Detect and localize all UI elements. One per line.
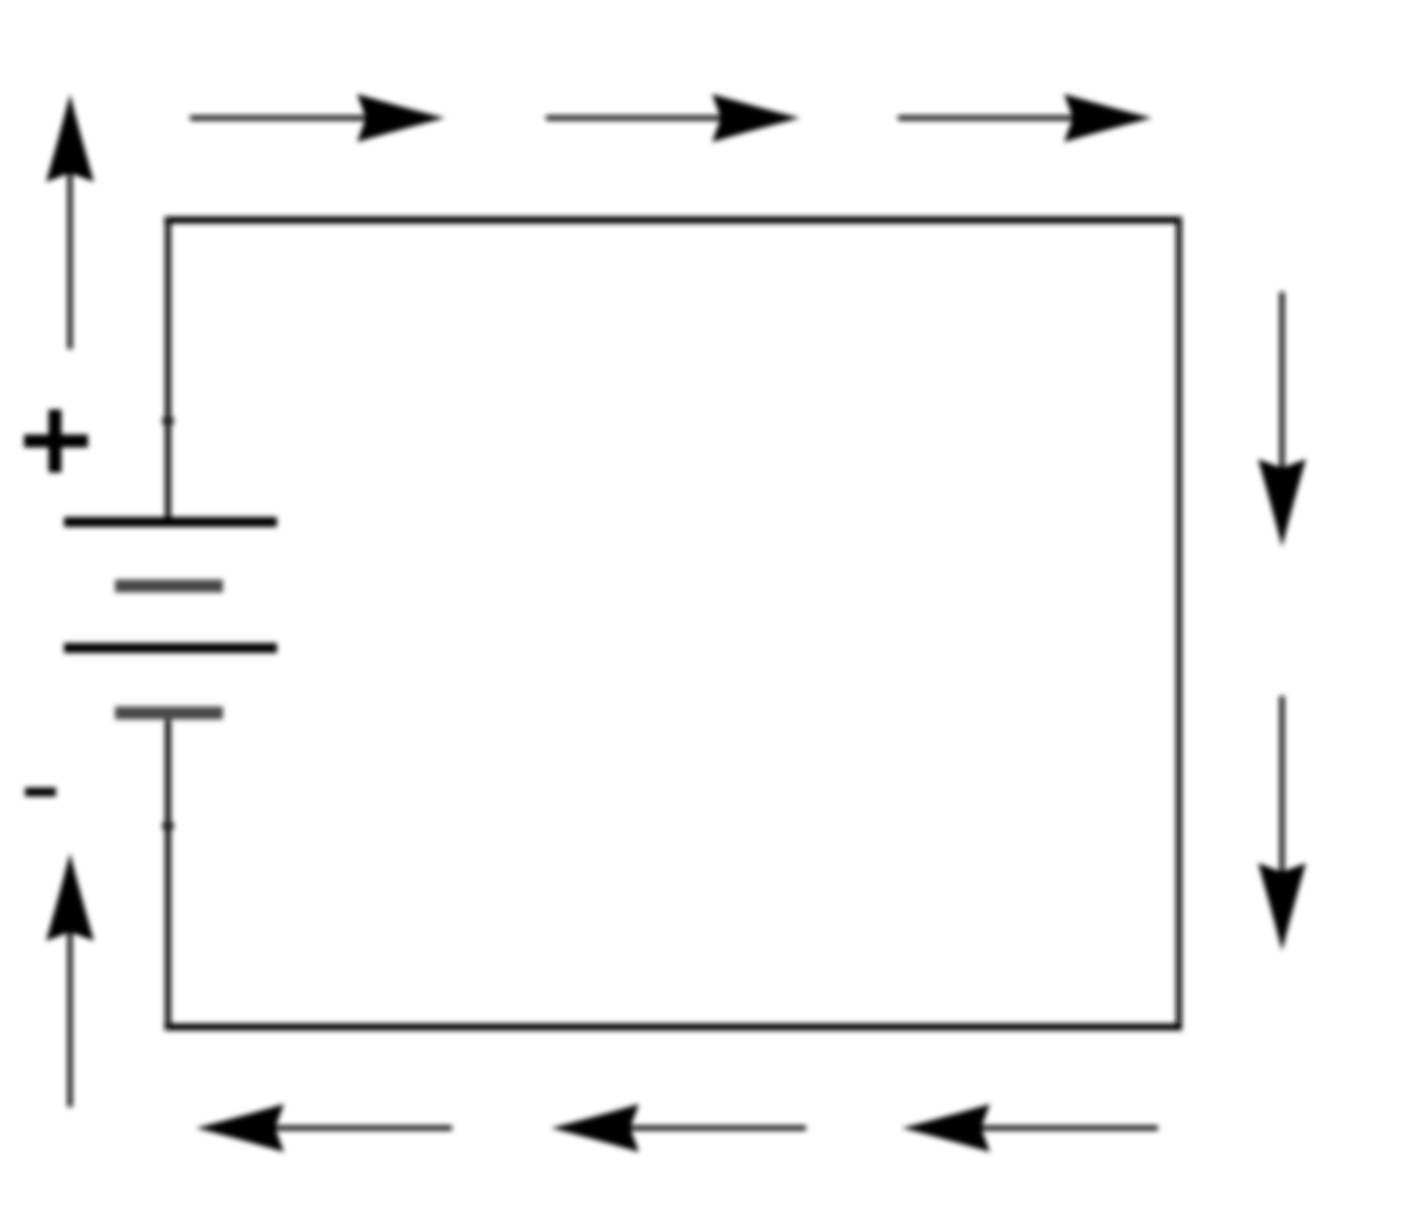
current arrow bottom 2 (leftward) bbox=[551, 1104, 806, 1152]
junction node on lower left wire bbox=[162, 820, 174, 832]
current arrow top 2 (rightward) bbox=[546, 94, 800, 142]
battery B1 long plate (cell 1, positive) bbox=[64, 517, 277, 527]
wire bottom side of loop bbox=[165, 1024, 1183, 1031]
current arrow left upper (upward) bbox=[46, 94, 94, 349]
current arrow bottom 1 (leftward) bbox=[196, 1104, 452, 1152]
battery B1 short plate (cell 1, negative) bbox=[115, 580, 223, 593]
polarity label + (positive terminal) bbox=[24, 410, 88, 473]
battery B1 short plate (cell 2, negative) bbox=[115, 707, 223, 720]
current arrow right 2 (downward) bbox=[1258, 696, 1306, 951]
current arrow top 3 (rightward) bbox=[898, 94, 1152, 142]
current arrow bottom 3 (leftward) bbox=[902, 1104, 1158, 1152]
junction node on upper left wire bbox=[162, 415, 174, 427]
current arrow left lower (upward) bbox=[46, 853, 94, 1107]
polarity label - (negative terminal) bbox=[25, 788, 56, 797]
wire right side of loop bbox=[1176, 217, 1182, 1031]
current arrow right 1 (downward) bbox=[1258, 292, 1306, 547]
battery B1 long plate (cell 2, positive) bbox=[64, 643, 277, 653]
wire left side upper segment (corner to battery + plate) bbox=[165, 217, 171, 523]
wire left side lower segment (battery - plate to corner) bbox=[165, 713, 171, 1031]
wire top side of loop bbox=[165, 217, 1183, 224]
current arrow top 1 (rightward) bbox=[190, 94, 445, 142]
